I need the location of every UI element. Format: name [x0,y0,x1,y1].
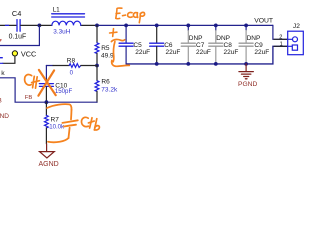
power port VCC [0,49,36,63]
svg-text:PGND: PGND [238,81,257,88]
node B junction at L1 right / R5 top [95,24,99,28]
ground PGND [238,64,257,88]
node D junction FB/C10/R7 [45,100,49,104]
svg-text:150pF: 150pF [55,88,73,95]
svg-text:VOUT: VOUT [254,18,273,25]
capacitor C6 [150,25,181,64]
resistor R8 [46,58,97,77]
svg-text:ND: ND [0,113,9,120]
svg-text:73.2k: 73.2k [101,87,118,94]
annotation Ctb text [82,117,100,130]
left edge cut red letter F [0,97,2,104]
wire VOUT corner to J2 pin 2 [273,25,288,39]
left edge cut red text ND [0,113,9,120]
left edge blue wire stub [0,57,3,58]
svg-text:C6: C6 [164,42,173,49]
svg-text:22uF: 22uF [224,49,239,56]
svg-text:22uF: 22uF [166,49,181,56]
wire top bus from node B to VOUT corner [97,24,273,26]
annotation hand-drawn cap Ctb beside R7 [47,104,78,142]
svg-text:0: 0 [70,70,74,77]
annotation hand-drawn e-cap over C5 [111,39,129,66]
svg-text:C8: C8 [224,42,233,49]
wire from node A down to VCC rail [0,25,39,45]
capacitor C5 [119,25,150,64]
resistor R6 [95,66,118,103]
svg-text:2: 2 [279,34,282,40]
annotation X over C10 [38,70,55,96]
capacitor C10 [39,79,72,102]
net label FB [25,95,33,101]
node C junction R5/R6/R8 [95,64,99,68]
annotation plus sign [110,29,117,37]
svg-text:49.9: 49.9 [101,53,114,60]
svg-text:L1: L1 [53,7,61,14]
svg-text:FB: FB [25,95,33,101]
ground AGND [39,144,59,168]
wire to J2 pin 1 [274,45,288,47]
svg-text:0.1uF: 0.1uF [9,34,27,41]
inductor L1 [39,7,97,36]
svg-text:C7: C7 [196,42,205,49]
resistor R7 [45,102,66,144]
svg-text:3.3uH: 3.3uH [53,29,70,36]
capacitor C8 (DNP) [209,25,239,64]
wire bottom bus [126,46,288,64]
pin number 1 [280,41,283,47]
svg-text:10.0k: 10.0k [49,123,65,130]
svg-text:C5: C5 [133,42,142,49]
svg-text:AGND: AGND [39,161,59,168]
svg-text:k: k [1,70,5,77]
wire top bus left segment into C4 [0,24,16,26]
svg-text:R5: R5 [101,45,110,52]
svg-text:J2: J2 [293,23,300,30]
svg-text:R6: R6 [101,79,110,86]
svg-text:C4: C4 [12,9,21,18]
svg-text:22uF: 22uF [135,49,150,56]
left edge cut text k [1,70,5,77]
svg-text:22uF: 22uF [196,49,211,56]
capacitor C9 (DNP) [239,25,269,64]
node junction C5 top [124,24,128,28]
svg-text:VCC: VCC [21,49,36,58]
resistor R5 [95,25,114,65]
node A junction at C4/L1 [38,24,42,28]
annotation E-cap text [116,8,145,23]
capacitor C7 (DNP) [181,25,211,64]
pin number 2 [279,34,282,40]
connector J2 [288,23,304,55]
capacitor C4 [9,9,40,41]
left edge cut red letter [0,39,2,42]
net label VOUT [254,18,273,25]
svg-text:22uF: 22uF [254,49,269,56]
wire R8 corner down to C10 [45,66,47,80]
net FB wire from left edge to R6 bottom [0,78,97,102]
svg-text:C9: C9 [254,42,263,49]
annotation Cff text [25,75,40,89]
svg-text:R8: R8 [67,58,76,65]
svg-text:B: B [0,97,2,104]
